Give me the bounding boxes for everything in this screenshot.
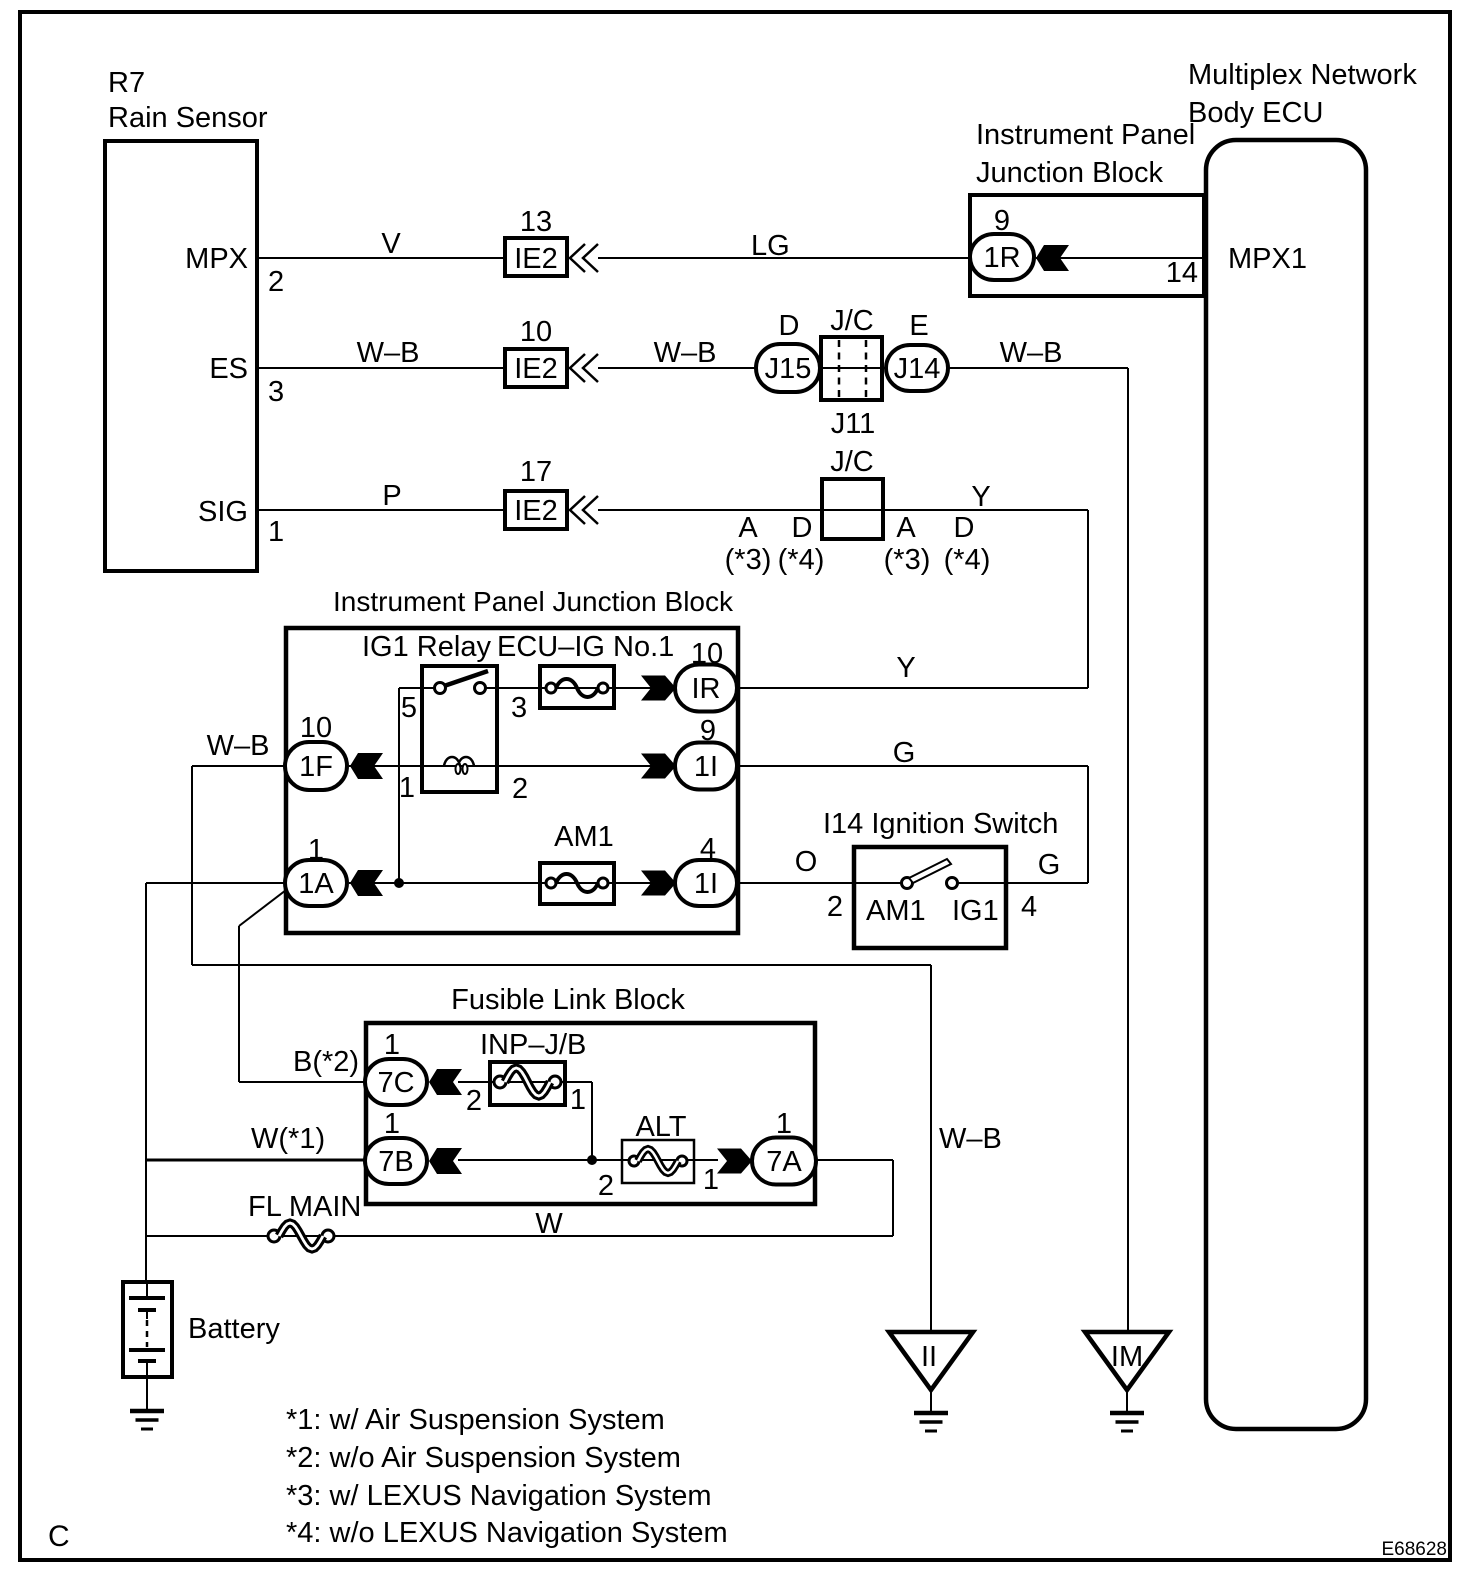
junction connector J/C box (SIG row) — [822, 479, 883, 539]
svg-text:W–B: W–B — [939, 1123, 1002, 1155]
ground symbol under battery — [130, 1409, 164, 1414]
chevron pair IE2 17 — [570, 496, 598, 524]
chevron pair IE2 10 — [570, 354, 598, 382]
svg-text:A: A — [896, 512, 916, 544]
svg-text:SIG: SIG — [198, 496, 248, 528]
svg-text:Y: Y — [896, 652, 915, 684]
terminal oval J14 — [886, 345, 948, 391]
svg-text:(*3): (*3) — [884, 544, 931, 576]
svg-text:E68628: E68628 — [1381, 1539, 1447, 1560]
wire diagonal 1A to 7C branch — [239, 887, 290, 926]
terminal oval 7C — [365, 1059, 427, 1105]
wire W-B from 1F left — [192, 765, 285, 767]
svg-text:(*3): (*3) — [725, 544, 772, 576]
svg-text:Battery: Battery — [188, 1313, 280, 1345]
wire W-B (ES row, rain sensor to IE2) — [259, 367, 503, 369]
svg-text:J14: J14 — [894, 353, 941, 385]
svg-text:E: E — [909, 310, 928, 342]
svg-text:1: 1 — [399, 772, 415, 804]
svg-text:P: P — [382, 480, 401, 512]
wire relay pin5 vertical to 1A row — [398, 688, 400, 883]
wire vertical INP-J/B junction — [591, 1082, 593, 1160]
svg-text:W–B: W–B — [1000, 337, 1063, 369]
harness arrow at 1F — [350, 753, 383, 779]
J11 dashed line 1 — [838, 340, 841, 398]
wire W-B vertical to ground IM — [1127, 368, 1129, 1332]
svg-text:B(*2): B(*2) — [293, 1046, 359, 1078]
terminal oval J15 — [756, 344, 820, 392]
wire G to ignition switch IG1 — [957, 882, 1088, 884]
ground triangle IM — [1085, 1332, 1169, 1390]
svg-text:ALT: ALT — [635, 1111, 686, 1143]
wire W(*1) to 7B — [146, 1159, 366, 1162]
wire P (SIG row, rain sensor to IE2) — [259, 509, 503, 511]
harness arrow at 1R (pin 14) — [1036, 245, 1069, 271]
wire INP-J/B to junction — [566, 1081, 592, 1083]
svg-text:FL MAIN: FL MAIN — [248, 1191, 361, 1223]
svg-text:Fusible Link Block: Fusible Link Block — [451, 984, 685, 1016]
relay switch contact right (pin 3) — [475, 683, 486, 694]
fusible link FL MAIN element — [268, 1230, 280, 1242]
svg-text:1R: 1R — [983, 242, 1020, 274]
wire W-B horizontal to ground II — [192, 964, 931, 966]
relay IG1 box — [422, 666, 497, 792]
svg-text:2: 2 — [827, 891, 843, 923]
svg-text:O: O — [795, 846, 818, 878]
svg-text:I14 Ignition Switch: I14 Ignition Switch — [823, 808, 1058, 840]
fuse AM1 box — [540, 863, 614, 904]
svg-text:10: 10 — [691, 638, 723, 670]
svg-text:1: 1 — [384, 1108, 400, 1140]
terminal oval 1R — [970, 234, 1034, 280]
wire ground II stub — [930, 1390, 932, 1412]
ground triangle II — [889, 1332, 973, 1390]
node junction relay pin5 / 1A — [394, 878, 404, 888]
svg-text:*2: w/o Air Suspension System: *2: w/o Air Suspension System — [286, 1442, 681, 1474]
chevron pair IE2 13 — [570, 244, 598, 272]
block R7 Rain Sensor — [105, 141, 257, 571]
harness arrow at 1A — [350, 870, 383, 896]
connector IE2 17 — [505, 491, 567, 529]
svg-text:2: 2 — [598, 1170, 614, 1202]
svg-text:AM1: AM1 — [554, 821, 614, 853]
svg-text:IE2: IE2 — [514, 353, 558, 385]
svg-text:W–B: W–B — [207, 730, 270, 762]
fusible link ALT box — [622, 1140, 694, 1183]
terminal oval 1A — [285, 860, 347, 906]
svg-text:V: V — [381, 228, 401, 260]
wire G from 1I(9) — [738, 765, 1088, 767]
relay switch lever — [444, 671, 488, 686]
svg-text:IG1: IG1 — [952, 895, 999, 927]
terminal oval 7B — [365, 1138, 427, 1184]
svg-text:AM1: AM1 — [866, 895, 926, 927]
svg-text:1: 1 — [570, 1084, 586, 1116]
svg-text:3: 3 — [511, 692, 527, 724]
svg-text:Multiplex Network: Multiplex Network — [1188, 59, 1417, 91]
svg-text:R7: R7 — [108, 67, 145, 99]
wire 1A to AM1 fuse to 1I(4) — [349, 882, 676, 884]
relay switch contact left (pin 5) — [435, 683, 446, 694]
svg-text:J/C: J/C — [830, 305, 874, 337]
svg-text:ECU–IG No.1: ECU–IG No.1 — [497, 631, 674, 663]
svg-text:Body ECU: Body ECU — [1188, 97, 1323, 129]
svg-text:10: 10 — [300, 712, 332, 744]
svg-text:1: 1 — [308, 834, 324, 866]
svg-text:W–B: W–B — [654, 337, 717, 369]
ground symbol under IM — [1110, 1411, 1144, 1416]
fuse ECU-IG No.1 element — [546, 683, 556, 693]
fusible link INP-J/B element — [494, 1076, 506, 1088]
svg-text:Rain Sensor: Rain Sensor — [108, 102, 268, 134]
svg-text:1: 1 — [268, 516, 284, 548]
svg-text:C: C — [48, 1520, 70, 1553]
svg-text:9: 9 — [994, 205, 1010, 237]
block Instrument Panel Junction Block (middle) — [286, 628, 738, 933]
terminal oval IR — [675, 665, 737, 712]
wire W-B vertical at 1F — [191, 766, 193, 965]
svg-text:1I: 1I — [694, 868, 718, 900]
svg-text:D: D — [779, 310, 800, 342]
svg-text:IE2: IE2 — [514, 243, 558, 275]
ground symbol under II — [914, 1411, 948, 1416]
wire LG (IE2 to 1R) — [598, 257, 970, 259]
wire 7A right — [816, 1159, 893, 1161]
wire battery to ground — [146, 1377, 148, 1410]
wire W (FL MAIN row) — [146, 1235, 893, 1237]
wire B(*2) to 7C — [239, 1081, 366, 1083]
wire ground IM stub — [1126, 1390, 1128, 1412]
svg-text:J11: J11 — [831, 408, 876, 440]
svg-text:1: 1 — [384, 1029, 400, 1061]
svg-text:W–B: W–B — [357, 337, 420, 369]
wire V (MPX row, rain sensor to IE2) — [259, 257, 503, 259]
svg-text:W(*1): W(*1) — [251, 1123, 325, 1155]
svg-text:IG1 Relay: IG1 Relay — [362, 631, 491, 663]
svg-text:II: II — [921, 1341, 937, 1373]
node junction INP-J/B / 7B — [587, 1155, 597, 1165]
ignition switch contact AM1 — [902, 878, 913, 889]
svg-text:*4: w/o LEXUS Navigation Syste: *4: w/o LEXUS Navigation System — [286, 1517, 728, 1549]
svg-text:7B: 7B — [378, 1146, 413, 1178]
wire 7B to ALT — [458, 1159, 718, 1161]
wire Y horizontal to IR — [738, 687, 1088, 689]
fuse ECU-IG No.1 box — [540, 666, 614, 708]
svg-text:2: 2 — [466, 1085, 482, 1117]
terminal oval 1I (4) — [675, 860, 737, 906]
svg-text:9: 9 — [700, 715, 716, 747]
svg-text:1F: 1F — [299, 751, 333, 783]
svg-text:IE2: IE2 — [514, 495, 558, 527]
block I14 Ignition Switch — [854, 847, 1006, 948]
svg-text:1A: 1A — [298, 868, 334, 900]
svg-text:1I: 1I — [694, 751, 718, 783]
wire relay pin3 to fuse to IR — [485, 687, 676, 689]
wire vertical 7A to W — [892, 1160, 894, 1236]
wire Y vertical — [1087, 510, 1089, 688]
svg-text:ES: ES — [209, 353, 248, 385]
svg-text:2: 2 — [512, 773, 528, 805]
svg-text:(*4): (*4) — [944, 544, 991, 576]
svg-text:1: 1 — [703, 1164, 719, 1196]
wire 1F to relay coil to 1I — [349, 765, 676, 767]
svg-text:4: 4 — [1021, 891, 1037, 923]
wire MPX1 pin 14 — [1036, 257, 1206, 259]
svg-text:3: 3 — [268, 376, 284, 408]
harness arrow at 7B — [429, 1148, 462, 1174]
block Instrument Panel Junction Block (top, with 1R) — [970, 195, 1204, 296]
svg-text:INP–J/B: INP–J/B — [480, 1029, 586, 1061]
ignition switch contact IG1 — [947, 878, 958, 889]
svg-text:17: 17 — [520, 456, 552, 488]
wire relay pin5 horizontal — [399, 687, 436, 689]
svg-text:J15: J15 — [765, 353, 812, 385]
block Fusible Link Block — [366, 1023, 815, 1204]
terminal oval 7A — [752, 1138, 816, 1185]
svg-text:Y: Y — [971, 481, 990, 513]
harness arrow at 7C — [429, 1069, 462, 1095]
svg-text:7A: 7A — [766, 1146, 802, 1178]
svg-text:5: 5 — [401, 692, 417, 724]
svg-text:2: 2 — [268, 266, 284, 298]
fusible link INP-J/B box — [490, 1062, 565, 1105]
battery box — [123, 1282, 172, 1377]
connector IE2 13 — [505, 238, 567, 276]
svg-text:W: W — [535, 1208, 563, 1240]
terminal oval 1I (9) — [675, 743, 737, 790]
svg-text:LG: LG — [751, 230, 790, 262]
svg-text:J/C: J/C — [830, 446, 874, 478]
fuse AM1 element — [546, 878, 556, 888]
svg-text:7C: 7C — [377, 1067, 414, 1099]
relay coil — [444, 757, 474, 766]
svg-text:G: G — [1038, 849, 1061, 881]
battery internal plates — [146, 1282, 148, 1297]
harness arrow into IR — [641, 676, 676, 701]
svg-text:MPX: MPX — [185, 243, 248, 275]
wire W-B (IE2 to J15, J11, J14) — [598, 367, 1128, 369]
terminal oval 1F — [285, 742, 347, 790]
svg-text:(*4): (*4) — [778, 544, 825, 576]
wire vertical 1A to battery — [145, 883, 147, 1281]
ignition switch lever — [909, 859, 951, 883]
svg-text:Instrument Panel Junction Bloc: Instrument Panel Junction Block — [333, 586, 734, 617]
connector IE2 10 — [505, 349, 567, 387]
wire G vertical — [1087, 766, 1089, 883]
fusible link ALT element — [629, 1156, 639, 1166]
wire 1A row left — [146, 882, 290, 884]
svg-text:10: 10 — [520, 316, 552, 348]
svg-text:14: 14 — [1166, 257, 1198, 289]
svg-text:IM: IM — [1111, 1341, 1143, 1373]
block Multiplex Network Body ECU MPX1 — [1206, 140, 1366, 1429]
svg-text:MPX1: MPX1 — [1228, 243, 1307, 275]
harness arrow into 1I (9) — [641, 754, 676, 779]
svg-text:4: 4 — [700, 833, 716, 865]
svg-text:Junction Block: Junction Block — [976, 157, 1163, 189]
svg-text:*3: w/ LEXUS Navigation System: *3: w/ LEXUS Navigation System — [286, 1480, 712, 1512]
svg-text:*1: w/ Air Suspension System: *1: w/ Air Suspension System — [286, 1404, 665, 1436]
wire 7C arrow to INP-J/B — [458, 1081, 566, 1083]
harness arrow into 1I (4) — [641, 871, 676, 896]
svg-text:D: D — [792, 512, 813, 544]
harness arrow into 7A — [717, 1149, 752, 1174]
wire W-B vertical to ground II — [930, 965, 932, 1332]
J11 dashed line 2 — [865, 340, 868, 398]
svg-text:D: D — [954, 512, 975, 544]
svg-text:IR: IR — [692, 673, 721, 705]
junction connector J11 box — [821, 337, 882, 400]
svg-text:G: G — [893, 737, 916, 769]
wire O (1I(4) to ignition switch AM1) — [738, 882, 903, 884]
wire vertical to 7C — [238, 926, 240, 1082]
svg-text:A: A — [738, 512, 758, 544]
wire Y (IE2 through J/C) — [598, 509, 1088, 511]
svg-text:13: 13 — [520, 206, 552, 238]
svg-text:1: 1 — [776, 1108, 792, 1140]
svg-text:Instrument Panel: Instrument Panel — [976, 119, 1195, 151]
